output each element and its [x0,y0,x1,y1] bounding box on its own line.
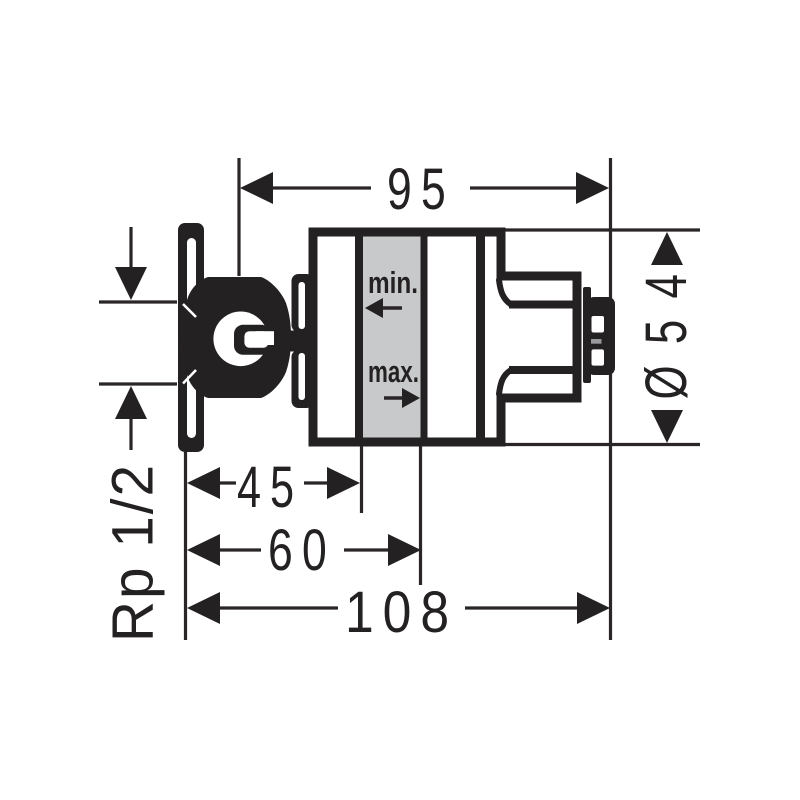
gray min/max zone [359,236,423,442]
arrow 60 left [187,534,220,566]
stub line thread top [99,300,177,303]
dim line 60 segments [219,548,261,551]
arrow 95 right [576,172,609,204]
extension line gray-band left (45 right) [360,446,363,513]
arrow thread up [115,386,147,419]
wall plate slot [187,238,196,438]
body box [313,232,481,442]
stub line thread bottom [99,382,177,385]
stub line Ø54 bottom [505,443,700,446]
svg-text:Rp 1/2: Rp 1/2 [101,463,166,642]
nut-plate sliver bottom [183,370,196,384]
extension line right (shared 95/108/Ø54) [609,158,612,640]
svg-text:108: 108 [345,580,458,645]
body inner line right (max plane) [421,232,428,442]
svg-text:45: 45 [237,455,303,520]
arrow 45 left [187,467,220,499]
nut bore [213,312,268,367]
collar step outline [480,232,577,442]
arrow thread down [115,267,147,300]
arrow max [402,388,420,408]
svg-text:Ø 5 4: Ø 5 4 [634,270,699,400]
spline notch top [592,316,605,333]
cylinder top edge [509,301,577,309]
arrow 60 right [388,534,421,566]
tab bottom [292,350,314,408]
dim line 108 segments [219,606,338,609]
dim line 45 segments [219,481,236,484]
spline notch bottom [592,349,605,365]
spline block [587,297,615,375]
extension line left of dim 95 [237,158,240,276]
spindle (G shape) [234,325,270,355]
svg-text:60: 60 [268,518,336,583]
extension line gray-band right (60 right) [419,446,422,585]
connector nut-to-body [283,331,313,352]
body inner line left (min plane) [355,232,363,442]
svg-text:95: 95 [387,157,455,222]
flare top [499,280,511,305]
arrow Ø54 up [651,232,683,265]
arrow 45 right [327,467,360,499]
nut-plate sliver top [183,304,196,317]
arrow Ø54 down [651,410,683,443]
arrow 108 right [577,592,610,624]
wall plate [178,223,204,452]
arrow 108 left [187,592,220,624]
flare bottom [499,370,511,394]
stub line Ø54 top [505,228,700,231]
svg-text:max.: max. [368,354,419,389]
tab top [292,274,314,332]
union nut [184,277,292,398]
dim line 95 segments [271,186,371,189]
arrow 95 left [240,172,273,204]
leader vertical above down-arrow [129,227,132,269]
leader vertical below up-arrow [129,417,132,450]
svg-text:min.: min. [368,265,418,300]
arrow min [365,298,383,318]
extension line plate (45/60/108 left) [184,452,187,640]
cylinder bottom edge [509,366,577,374]
spline bar [583,287,591,383]
spline slit middle [591,339,602,344]
